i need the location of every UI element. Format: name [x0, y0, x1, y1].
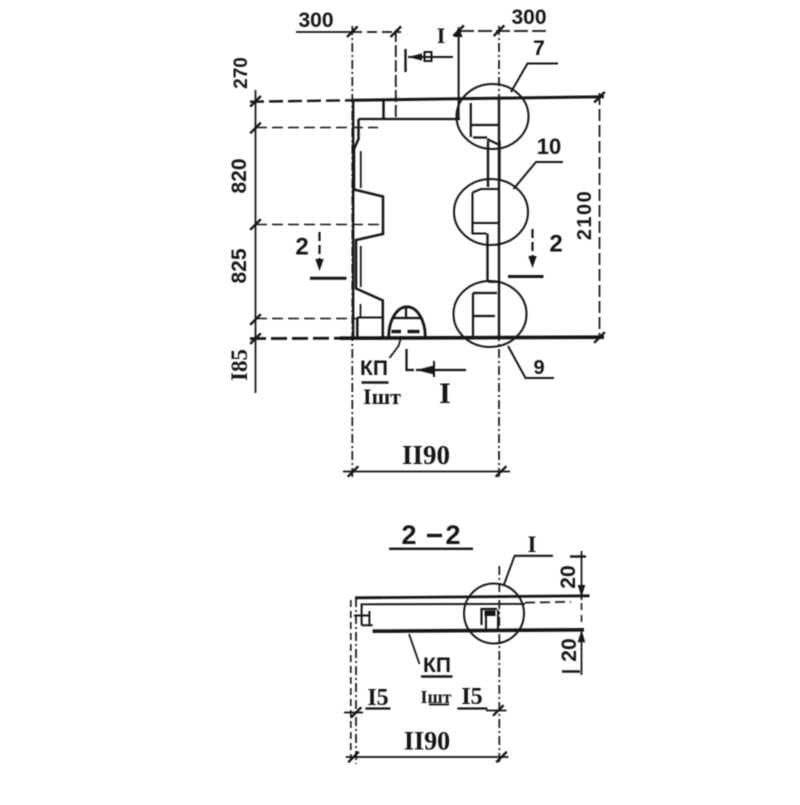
view arrow line	[416, 369, 466, 371]
svg-text:I85: I85	[227, 349, 252, 381]
section mark 2 right arrow	[528, 256, 536, 268]
flag box	[425, 52, 432, 61]
section mark 2 right vertical	[531, 229, 533, 257]
tick 300 right at section line	[453, 25, 464, 36]
leader I section	[504, 556, 515, 585]
extension line y223	[256, 224, 380, 226]
flag view mark line	[408, 56, 453, 58]
bottom edge of panel	[250, 337, 340, 340]
svg-text:300: 300	[511, 6, 546, 29]
label I underline	[514, 555, 553, 557]
svg-text:2: 2	[401, 520, 416, 550]
arch apex vertical	[405, 307, 407, 319]
svg-text:I5: I5	[367, 685, 388, 711]
circle1 notch top bar	[481, 609, 498, 625]
detail circle 9	[454, 281, 527, 347]
wall inner lines	[360, 151, 362, 317]
15 right underline	[457, 707, 487, 709]
KP leader bottom drawing	[409, 634, 420, 664]
right wall stem left edge segments	[488, 141, 500, 282]
detail circle 10	[454, 179, 528, 245]
detail circle 7	[457, 84, 529, 149]
section line 1 vertical	[458, 30, 460, 119]
circle7 detail notch	[471, 103, 499, 145]
svg-text:2100: 2100	[574, 190, 596, 241]
chain tick y337	[250, 333, 261, 344]
arch bar right	[408, 330, 420, 333]
15 left dim stub	[344, 712, 363, 714]
arch bar left	[392, 330, 402, 333]
svg-text:Iшт: Iшт	[363, 384, 401, 409]
left extension dash-dot	[355, 598, 357, 764]
dim 20 bottom bar	[562, 670, 580, 672]
svg-text:820: 820	[228, 158, 251, 193]
svg-text:9: 9	[533, 357, 544, 379]
KP underline bottom	[421, 675, 453, 677]
section mark 2 left vertical	[318, 232, 320, 260]
svg-text:300: 300	[298, 9, 333, 32]
bump3 bottom horizontal	[357, 317, 383, 319]
dim line 300 right	[460, 30, 547, 32]
chain tick y319	[250, 314, 261, 325]
KP underline	[362, 381, 389, 384]
svg-text:7: 7	[533, 37, 545, 60]
svg-text:КП: КП	[360, 357, 388, 380]
arch chord	[392, 317, 423, 319]
15 right tick	[493, 705, 504, 716]
15 right dim stub	[486, 710, 507, 712]
arch opening	[389, 307, 426, 337]
svg-text:20: 20	[557, 565, 580, 588]
dim line 1190 top drawing	[343, 471, 510, 473]
section mark 2 left bar	[310, 277, 347, 280]
tick 1190 bottom right	[496, 752, 507, 763]
dim line 1190 bottom	[346, 756, 509, 758]
leader 7	[511, 64, 558, 93]
left end notch	[354, 604, 373, 626]
chain tick y99	[250, 96, 261, 107]
svg-text:I: I	[437, 23, 446, 48]
circle10 detail notch	[472, 189, 500, 234]
svg-text:I: I	[528, 532, 537, 557]
circle1 notch walls	[486, 610, 498, 631]
svg-text:10: 10	[537, 134, 561, 159]
dim 20 middle dashes	[581, 603, 583, 627]
KP leader top drawing	[390, 336, 402, 358]
tick 300 right at axis	[494, 25, 505, 36]
dim 20 bottom arrow	[578, 630, 586, 642]
svg-text:2: 2	[295, 234, 308, 261]
detail circle 1	[464, 584, 524, 644]
svg-text:КП: КП	[423, 654, 451, 677]
left dimension chain vertical	[255, 90, 257, 393]
svg-text:2: 2	[549, 231, 562, 258]
left wall profile polyline	[354, 100, 384, 338]
dim 20 top bar	[570, 555, 586, 557]
leader 10	[514, 162, 564, 189]
section mark 2 right bar	[508, 275, 544, 278]
inner line dashed tail	[525, 601, 571, 604]
L bracket	[407, 349, 415, 370]
extension line y128	[256, 127, 378, 129]
tick 300 left at axis	[347, 26, 358, 37]
leader 9	[508, 346, 554, 378]
chain tick y223	[250, 219, 261, 230]
dim 20 bottom vertical	[581, 628, 583, 675]
left wall outer line	[352, 100, 354, 338]
tick 1190 left	[348, 466, 359, 477]
section 1 up arrow	[455, 26, 463, 37]
svg-text:I: I	[439, 377, 451, 410]
svg-text:II90: II90	[402, 440, 450, 470]
bottom face	[373, 630, 584, 631]
15 left underline	[365, 707, 390, 709]
tick 1190 right	[496, 466, 507, 477]
tick 300 left at x396	[391, 26, 402, 37]
circle1 black key	[485, 611, 496, 617]
right axis dash-dot line	[498, 26, 500, 477]
view arrow head	[416, 365, 435, 375]
15 left tick	[351, 707, 362, 718]
section mark 2 left arrow	[315, 259, 323, 271]
tick 1190 bottom left	[348, 752, 359, 763]
right wall outer edge	[498, 98, 500, 337]
flag arrow	[408, 53, 422, 60]
right axis dash-dot bottom	[498, 566, 500, 764]
svg-text:825: 825	[228, 248, 251, 283]
dim 20 top vertical	[581, 551, 583, 600]
svg-text:2: 2	[445, 520, 460, 550]
flag view mark bar	[404, 49, 406, 72]
svg-text:II90: II90	[404, 727, 450, 756]
extension line y319	[256, 318, 357, 320]
title dash	[427, 534, 442, 537]
inner line	[361, 603, 526, 605]
chain tick y128	[250, 123, 261, 134]
svg-text:I5: I5	[461, 684, 482, 710]
left axis dash-dot line	[351, 26, 353, 477]
view arrow tick	[433, 361, 435, 377]
dim line 300 left	[296, 31, 352, 33]
dim 20 top arrow	[578, 585, 586, 597]
tick 2100 top	[594, 92, 605, 103]
dim line 2100	[599, 93, 601, 338]
extension line x=396	[395, 30, 397, 119]
title underline	[389, 548, 473, 550]
svg-text:20: 20	[558, 638, 581, 661]
left extension dash-dot outer	[350, 600, 352, 760]
svg-text:270: 270	[231, 57, 252, 89]
top face	[355, 596, 590, 598]
top edge of panel	[250, 100, 352, 101]
circle9 detail notch	[473, 282, 500, 336]
tick 2100 bottom	[594, 332, 605, 343]
flange bottom line y=119	[359, 118, 461, 120]
Isht underline bottom	[429, 704, 449, 706]
